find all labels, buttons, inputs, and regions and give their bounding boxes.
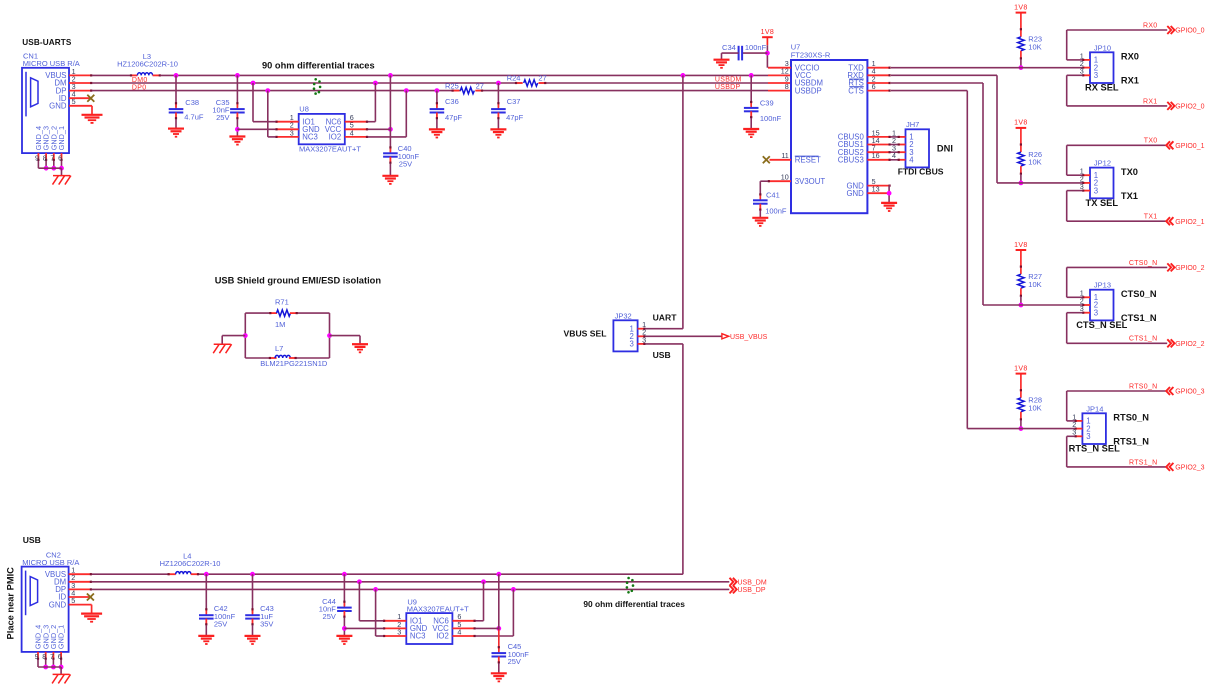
- svg-text:GND: GND: [49, 102, 67, 111]
- svg-text:GPIO0_1: GPIO0_1: [1175, 143, 1204, 150]
- svg-text:GPIO0_2: GPIO0_2: [1175, 265, 1204, 272]
- svg-text:27: 27: [538, 73, 546, 82]
- svg-text:GND: GND: [846, 189, 864, 198]
- svg-text:USB_DM: USB_DM: [738, 580, 767, 587]
- svg-text:TX1: TX1: [1144, 214, 1158, 221]
- svg-text:BLM21PG221SN1D: BLM21PG221SN1D: [260, 359, 328, 368]
- svg-text:USB_VBUS: USB_VBUS: [730, 334, 768, 341]
- svg-text:USB-UARTS: USB-UARTS: [22, 38, 72, 47]
- svg-text:JP10: JP10: [1094, 43, 1111, 52]
- svg-text:NC3: NC3: [410, 632, 426, 641]
- svg-text:RTS0_N: RTS0_N: [1113, 413, 1149, 423]
- svg-text:U8: U8: [299, 105, 309, 114]
- svg-text:35V: 35V: [260, 620, 273, 629]
- svg-text:UART: UART: [653, 313, 678, 323]
- svg-text:3: 3: [629, 340, 633, 349]
- svg-text:DM0: DM0: [132, 77, 148, 84]
- svg-text:CBUS3: CBUS3: [838, 156, 864, 165]
- svg-text:RX SEL: RX SEL: [1085, 83, 1119, 93]
- svg-text:USB Shield ground EMI/ESD isol: USB Shield ground EMI/ESD isolation: [215, 276, 382, 286]
- svg-text:10K: 10K: [1028, 280, 1041, 289]
- svg-text:3: 3: [1094, 308, 1098, 317]
- svg-text:TX0: TX0: [1121, 167, 1138, 177]
- svg-text:90 ohm differential traces: 90 ohm differential traces: [583, 599, 685, 609]
- svg-text:USBDP: USBDP: [715, 84, 741, 91]
- svg-text:IO2: IO2: [329, 133, 342, 142]
- svg-text:7: 7: [50, 153, 54, 162]
- svg-text:DP0: DP0: [132, 85, 147, 92]
- svg-text:R25: R25: [445, 81, 459, 90]
- svg-text:CTS0_N: CTS0_N: [1121, 289, 1157, 299]
- svg-text:25V: 25V: [216, 113, 229, 122]
- svg-text:USBDM: USBDM: [715, 76, 742, 83]
- svg-text:C41: C41: [766, 190, 780, 199]
- svg-text:GND_1: GND_1: [57, 126, 66, 150]
- svg-text:3: 3: [397, 627, 401, 636]
- svg-text:GPIO0_0: GPIO0_0: [1175, 28, 1204, 35]
- svg-text:6: 6: [58, 153, 62, 162]
- svg-text:1V8: 1V8: [761, 29, 775, 36]
- svg-text:10K: 10K: [1028, 158, 1041, 167]
- svg-text:Place near PMIC: Place near PMIC: [6, 567, 16, 640]
- svg-text:CTS0_N: CTS0_N: [1129, 260, 1158, 267]
- svg-text:47pF: 47pF: [506, 113, 524, 122]
- svg-text:4: 4: [909, 156, 914, 165]
- svg-text:FTDI CBUS: FTDI CBUS: [898, 167, 944, 177]
- svg-text:GPIO2_3: GPIO2_3: [1175, 465, 1204, 472]
- svg-text:USB: USB: [653, 350, 671, 360]
- svg-text:R24: R24: [507, 73, 521, 82]
- svg-text:DNI: DNI: [937, 143, 953, 153]
- svg-text:6: 6: [58, 652, 62, 661]
- svg-text:HZ1206C202R-10: HZ1206C202R-10: [117, 60, 178, 69]
- svg-text:CTS_N SEL: CTS_N SEL: [1076, 320, 1127, 330]
- svg-text:RTS_N SEL: RTS_N SEL: [1069, 444, 1120, 454]
- svg-text:1V8: 1V8: [1014, 4, 1028, 11]
- svg-text:TX0: TX0: [1144, 138, 1158, 145]
- svg-text:GND: GND: [49, 600, 67, 609]
- svg-text:RTS1_N: RTS1_N: [1129, 459, 1158, 466]
- svg-text:GPIO2_2: GPIO2_2: [1175, 341, 1204, 348]
- svg-text:9: 9: [35, 153, 39, 162]
- svg-text:3: 3: [1094, 186, 1098, 195]
- svg-text:3V3OUT: 3V3OUT: [795, 177, 826, 186]
- svg-text:8: 8: [42, 652, 46, 661]
- svg-text:FT230XS-R: FT230XS-R: [791, 50, 831, 59]
- svg-text:VBUS SEL: VBUS SEL: [564, 328, 607, 338]
- svg-text:RESET: RESET: [795, 156, 821, 165]
- svg-text:USBDP: USBDP: [795, 86, 822, 95]
- svg-text:MAX3207EAUT+T: MAX3207EAUT+T: [299, 145, 361, 154]
- svg-text:10K: 10K: [1028, 403, 1041, 412]
- svg-text:JP12: JP12: [1094, 159, 1111, 168]
- svg-text:11: 11: [781, 151, 788, 160]
- svg-text:1V8: 1V8: [1014, 242, 1028, 249]
- svg-text:GPIO2_0: GPIO2_0: [1175, 104, 1204, 111]
- svg-text:25V: 25V: [323, 612, 336, 621]
- svg-text:4: 4: [457, 627, 461, 636]
- svg-text:8: 8: [785, 82, 789, 91]
- svg-text:C39: C39: [760, 98, 774, 107]
- svg-text:RX1: RX1: [1121, 76, 1139, 86]
- svg-text:USB: USB: [23, 535, 41, 545]
- svg-text:90 ohm differential traces: 90 ohm differential traces: [262, 60, 375, 70]
- svg-text:R71: R71: [275, 297, 289, 306]
- svg-text:1M: 1M: [275, 320, 285, 329]
- svg-text:5: 5: [72, 97, 76, 106]
- svg-text:C37: C37: [507, 97, 521, 106]
- svg-text:GPIO0_3: GPIO0_3: [1175, 389, 1204, 396]
- svg-text:JH7: JH7: [906, 120, 919, 129]
- svg-text:L7: L7: [275, 344, 283, 353]
- svg-text:100nF: 100nF: [760, 114, 782, 123]
- svg-text:CTS1_N: CTS1_N: [1129, 336, 1158, 343]
- svg-text:TX1: TX1: [1121, 191, 1138, 201]
- svg-text:5: 5: [71, 596, 75, 605]
- svg-text:RX0: RX0: [1121, 52, 1139, 62]
- svg-text:RTS0_N: RTS0_N: [1129, 383, 1158, 390]
- svg-text:25V: 25V: [508, 657, 521, 666]
- svg-text:1V8: 1V8: [1014, 120, 1028, 127]
- svg-text:1V8: 1V8: [1014, 365, 1028, 372]
- svg-text:100nF: 100nF: [765, 206, 787, 215]
- svg-text:GPIO2_1: GPIO2_1: [1175, 219, 1204, 226]
- svg-text:27: 27: [476, 81, 484, 90]
- svg-text:25V: 25V: [214, 620, 227, 629]
- svg-text:4.7uF: 4.7uF: [184, 113, 204, 122]
- svg-text:CTS: CTS: [848, 86, 864, 95]
- svg-text:TX SEL: TX SEL: [1086, 198, 1119, 208]
- svg-text:4: 4: [892, 151, 896, 160]
- svg-text:10K: 10K: [1028, 42, 1041, 51]
- svg-text:25V: 25V: [399, 159, 412, 168]
- svg-text:JP14: JP14: [1086, 404, 1103, 413]
- svg-text:100nF: 100nF: [745, 43, 767, 52]
- svg-text:10: 10: [781, 173, 789, 182]
- svg-text:47pF: 47pF: [445, 113, 463, 122]
- svg-text:JP13: JP13: [1094, 281, 1111, 290]
- svg-text:3: 3: [1086, 432, 1090, 441]
- svg-text:7: 7: [50, 652, 54, 661]
- svg-text:3: 3: [290, 128, 294, 137]
- svg-text:GND_1: GND_1: [57, 625, 66, 649]
- svg-text:RX1: RX1: [1143, 98, 1158, 105]
- svg-text:8: 8: [43, 153, 47, 162]
- svg-text:C34: C34: [722, 43, 736, 52]
- svg-text:C36: C36: [445, 97, 459, 106]
- svg-text:NC3: NC3: [302, 133, 318, 142]
- svg-text:9: 9: [35, 652, 39, 661]
- svg-text:4: 4: [350, 128, 354, 137]
- svg-text:C38: C38: [185, 98, 199, 107]
- svg-text:HZ1206C202R-10: HZ1206C202R-10: [160, 559, 221, 568]
- svg-text:RX0: RX0: [1143, 22, 1158, 29]
- svg-text:USB_DP: USB_DP: [738, 587, 766, 594]
- svg-text:IO2: IO2: [436, 632, 449, 641]
- svg-text:JP32: JP32: [615, 312, 632, 321]
- svg-text:3: 3: [1094, 71, 1098, 80]
